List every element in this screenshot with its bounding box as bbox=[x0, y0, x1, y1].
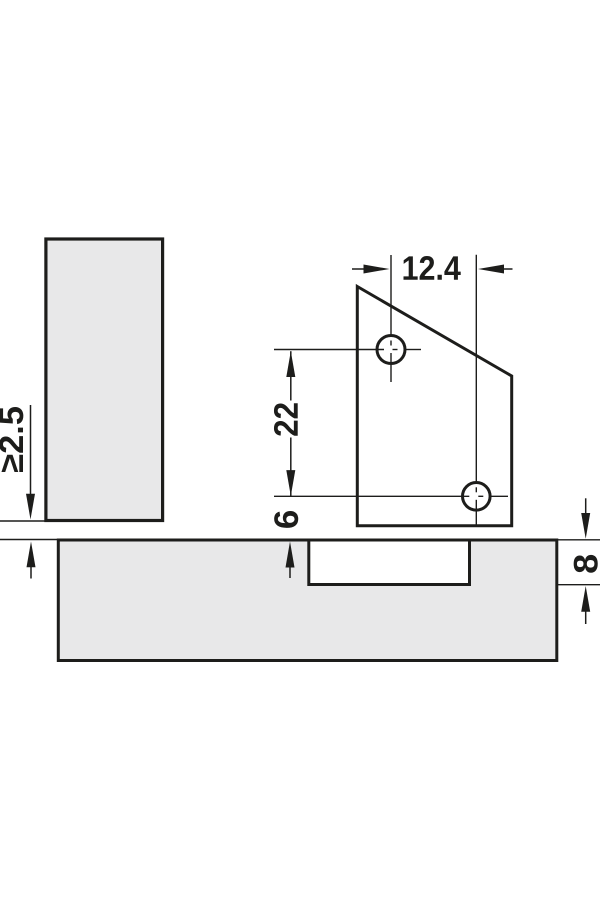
extension line panel top left bbox=[0, 539, 57, 541]
dimension label 22 bbox=[274, 403, 298, 436]
dimension label 8 bbox=[574, 555, 598, 573]
centerline upper hole vertical bbox=[390, 255, 392, 382]
extension line door bottom left bbox=[0, 520, 45, 522]
dimension label 6 bbox=[274, 511, 298, 528]
dimension 8 lower arrow bbox=[581, 586, 590, 624]
centerline upper hole horizontal bbox=[274, 349, 421, 351]
groove notch bbox=[309, 540, 470, 585]
dimension 8 upper arrow bbox=[581, 498, 590, 539]
upper hole bbox=[377, 336, 405, 364]
mounting plate outline bbox=[357, 287, 511, 526]
dimension 6 lower arrow bbox=[286, 542, 295, 579]
lower hole bbox=[463, 483, 491, 511]
dimension label 12.4 bbox=[403, 256, 460, 280]
dimension ge2.5 line bbox=[26, 405, 35, 520]
dimension ge2.5 lower arrow bbox=[27, 542, 36, 579]
centerline lower hole horizontal bbox=[274, 495, 508, 497]
cabinet panel bbox=[58, 540, 557, 661]
dimension 22 line bbox=[286, 351, 295, 496]
extension line panel top right bbox=[558, 539, 600, 541]
centerline lower hole vertical bbox=[475, 255, 477, 526]
dimension 12.4 left arrow bbox=[352, 265, 390, 274]
dimension 12.4 right arrow bbox=[478, 265, 513, 274]
door panel bbox=[46, 239, 163, 521]
dimension label ge2.5 bbox=[0, 407, 23, 472]
extension line groove bottom right bbox=[558, 584, 600, 586]
